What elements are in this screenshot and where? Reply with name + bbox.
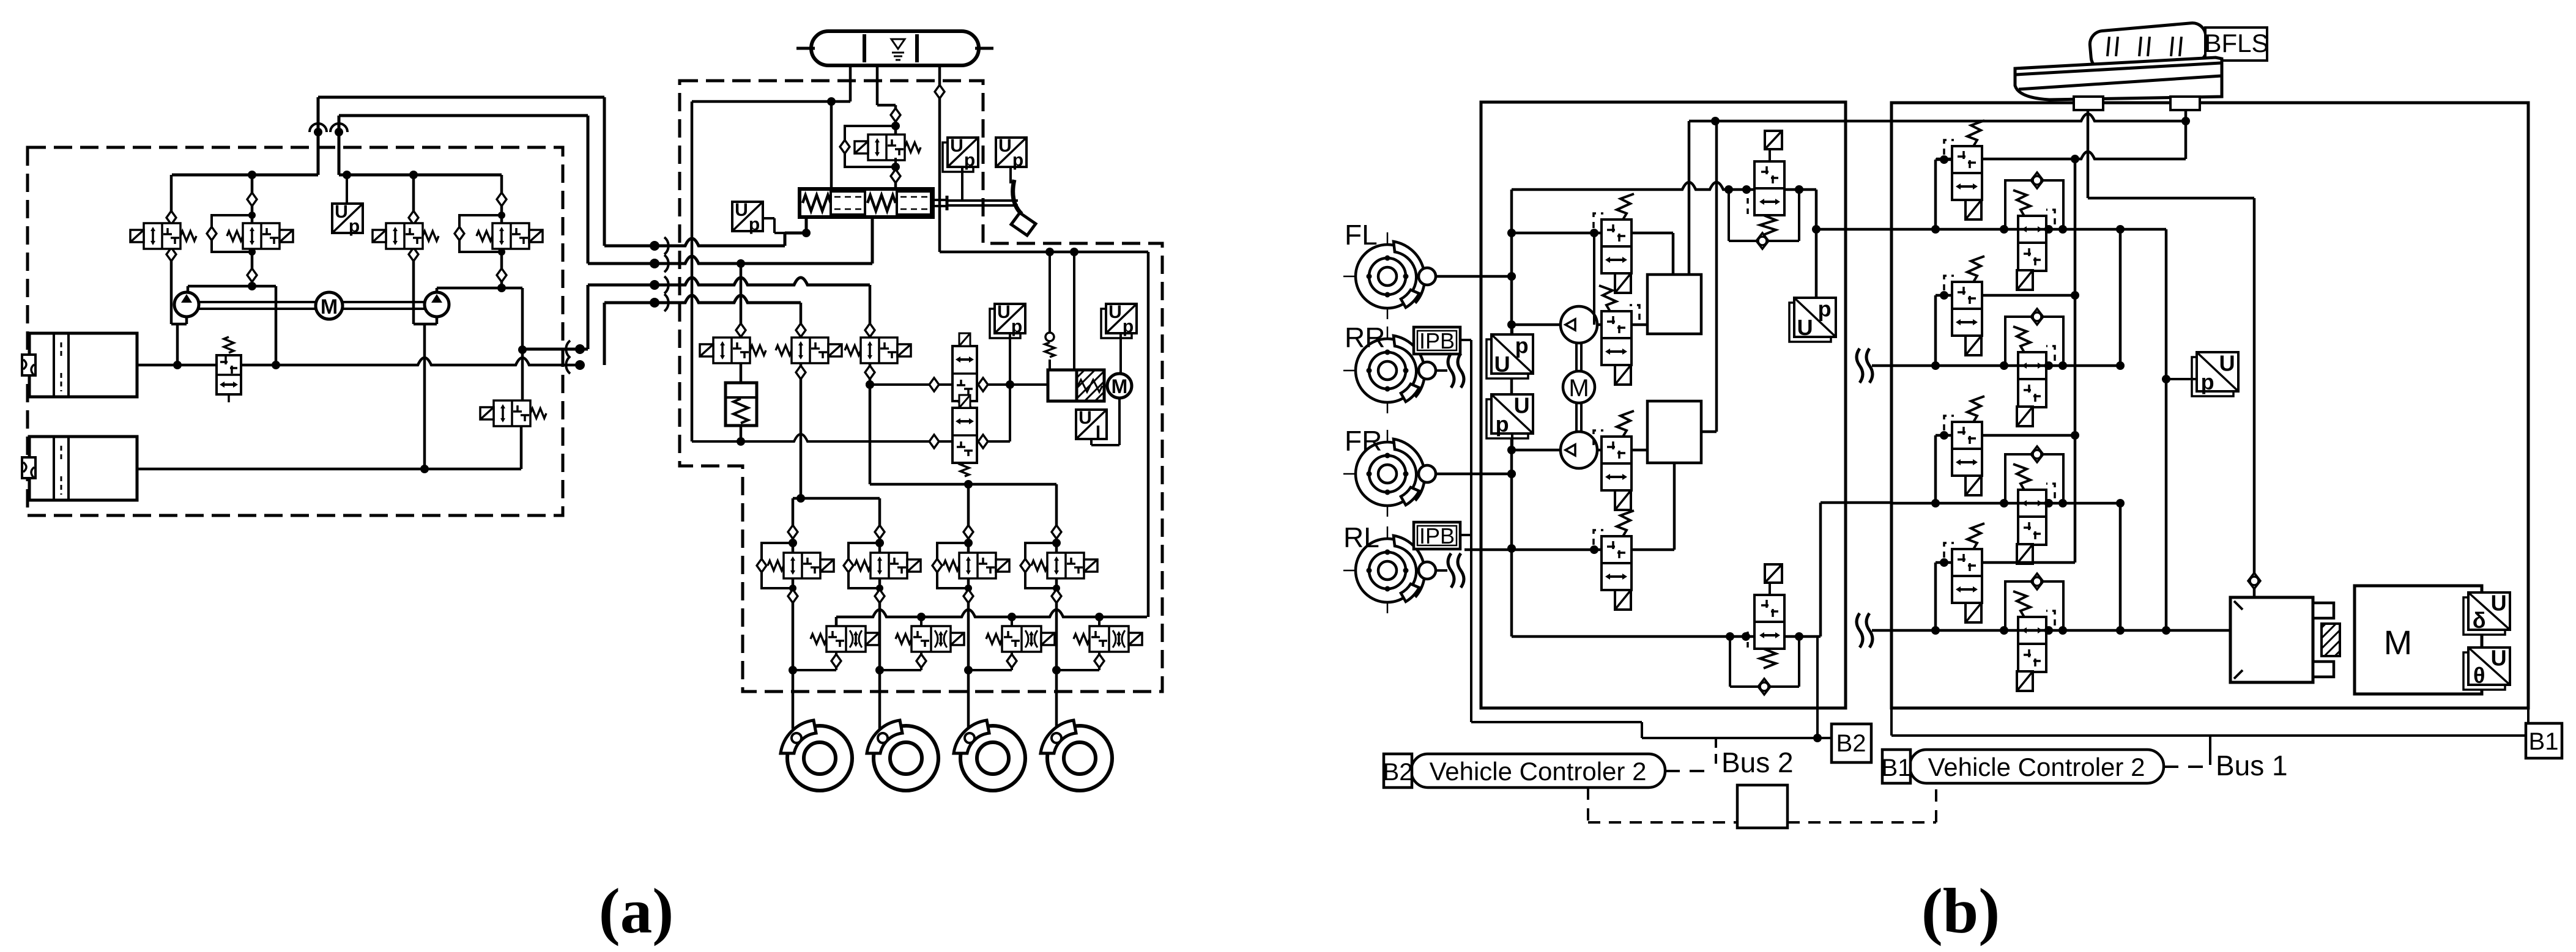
wire V1b rail bbox=[1512, 232, 1602, 235]
wire pump1 frame bbox=[188, 285, 276, 288]
pressure sensor U/p b2-1 bbox=[1487, 339, 1528, 378]
wire drain standpipe bbox=[691, 101, 694, 441]
BFLS tray bbox=[2015, 57, 2222, 100]
svg-text:U: U bbox=[997, 302, 1011, 322]
brake caliper 2 bbox=[867, 720, 902, 753]
svg-text:B1: B1 bbox=[1882, 755, 1912, 781]
svg-text:RR: RR bbox=[1345, 322, 1385, 353]
solenoid valve V4 bbox=[492, 223, 529, 249]
svg-text:Vehicle Controler 2: Vehicle Controler 2 bbox=[1430, 757, 1647, 786]
heat symbol RL bbox=[1436, 569, 1447, 572]
check valve loop inlet 1 bbox=[757, 559, 766, 572]
wire supply line 2 (a) bbox=[338, 116, 341, 175]
wire B2 signal line bbox=[1816, 637, 1819, 738]
svg-text:FL: FL bbox=[1345, 219, 1378, 251]
wire MC output manifold bbox=[940, 251, 1148, 254]
inlet valve E2 bbox=[870, 553, 907, 578]
wire pump1 top rail bbox=[172, 174, 318, 177]
svg-text:B1: B1 bbox=[2529, 728, 2559, 755]
wire valve V2 column bbox=[251, 175, 254, 194]
svg-text:U: U bbox=[2219, 351, 2235, 376]
heat symbol rail B bbox=[1857, 349, 1863, 383]
bypass loop test valve bbox=[845, 126, 896, 167]
wire to MC fill port 2 bbox=[894, 182, 897, 189]
outlet valve A1 bbox=[826, 626, 866, 652]
fluid level symbol bbox=[891, 39, 905, 49]
IPB box RR bbox=[1414, 327, 1460, 354]
svg-text:BFLS: BFLS bbox=[2204, 29, 2268, 57]
check valve above inlet 4 bbox=[1052, 525, 1061, 539]
dashed enclosure power unit (a) bbox=[28, 147, 563, 515]
coupling C4 bbox=[650, 298, 659, 308]
svg-text:U: U bbox=[335, 202, 348, 222]
BFLS reservoir body bbox=[2089, 22, 2208, 71]
svg-text:FR: FR bbox=[1345, 425, 1382, 457]
svg-text:p: p bbox=[2201, 369, 2214, 394]
bypass loop inlet 3 bbox=[937, 543, 968, 588]
wire wheel column 3 lower bbox=[967, 602, 970, 729]
svg-text:θ: θ bbox=[2473, 663, 2485, 688]
vehicle controller capsule left bbox=[1411, 754, 1665, 788]
wire b1 module 1 supply bbox=[1936, 158, 1952, 161]
svg-text:U: U bbox=[1108, 302, 1122, 322]
current sensor U/I bbox=[1076, 410, 1107, 439]
wire outlet 4 drain bbox=[1098, 652, 1101, 655]
wire wheel column 4 lower bbox=[1055, 602, 1058, 729]
check valve below V4 bbox=[497, 268, 507, 282]
check valve below V1 bbox=[166, 248, 176, 261]
wire b1 supply manifold bbox=[2074, 159, 2077, 563]
outlet valve b1-2 bbox=[2005, 317, 2063, 366]
wire motor to sensor bbox=[1118, 398, 1121, 445]
dashed link to Bus 2 bbox=[1665, 770, 1713, 772]
check valve below test valve bbox=[891, 169, 900, 183]
inlet valve b1-1 bbox=[1952, 146, 1982, 200]
wire tank2 outlet bbox=[137, 468, 425, 471]
test valve TV bbox=[868, 135, 905, 160]
check valve above V2 bbox=[247, 193, 257, 206]
piston block 1 (b2) bbox=[1647, 275, 1701, 334]
wire b1 module 4 loop bbox=[1934, 563, 1937, 630]
check valve loop inlet 4 bbox=[1020, 559, 1030, 572]
drive shaft bbox=[198, 301, 425, 303]
wire wheel column 2 upper bbox=[878, 498, 882, 526]
wire V5 to tank2 line bbox=[520, 426, 523, 469]
outlet valve A3 bbox=[1002, 626, 1041, 652]
check valve above V8 bbox=[865, 323, 875, 337]
check valve below inlet 1 bbox=[788, 589, 798, 603]
pressure sensor U/p pedal 2 bbox=[996, 138, 1026, 167]
valve V4b bbox=[1602, 536, 1631, 590]
wire B1 bus line bbox=[1890, 708, 1893, 736]
svg-text:U: U bbox=[1494, 352, 1510, 377]
check valve below V3 bbox=[409, 248, 418, 261]
svg-text:p: p bbox=[1012, 150, 1023, 171]
wire b1 suction line bbox=[1936, 152, 2186, 159]
pipe hook 1 bbox=[314, 128, 322, 136]
wire valve V1 column bbox=[170, 175, 173, 212]
svg-text:M: M bbox=[321, 295, 338, 319]
wire tie C-D bbox=[2119, 503, 2122, 630]
inlet valve E1 bbox=[784, 553, 820, 578]
wire pump2 suction bbox=[412, 320, 415, 324]
wire pump1 suction bbox=[170, 320, 173, 324]
electric motor M (a) bbox=[316, 292, 343, 319]
wire outlet 2 drain bbox=[920, 652, 922, 655]
svg-text:p: p bbox=[964, 150, 975, 171]
wheel FR bbox=[1343, 473, 1431, 475]
check valve below V8 bbox=[865, 366, 875, 379]
coupling C2 bbox=[650, 259, 659, 268]
wire rail C bbox=[1891, 502, 2120, 505]
solenoid valve V6 bbox=[713, 338, 750, 363]
wire reservoir right branch bbox=[2184, 110, 2188, 159]
pipe hook 2 bbox=[335, 128, 343, 136]
wire IPB signal to B2 bbox=[1460, 339, 1471, 341]
wire pump2 frame bbox=[437, 287, 522, 290]
brake pedal bbox=[1013, 180, 1022, 214]
check valve below inlet 2 bbox=[875, 589, 885, 603]
pressure sensor U/p MC bbox=[732, 202, 763, 231]
wire flow line F1 bbox=[870, 383, 1048, 386]
wire block1 to P1 bbox=[1597, 323, 1602, 327]
wire return line 3 (a) bbox=[587, 285, 590, 349]
svg-text:Vehicle Controler 2: Vehicle Controler 2 bbox=[1928, 753, 2145, 781]
solenoid valve V5 bbox=[494, 400, 530, 426]
inlet valve b1-3 bbox=[1952, 422, 1982, 476]
check valve in V4 loop bbox=[455, 227, 464, 240]
coupling C6 bbox=[575, 360, 585, 370]
solenoid valve V1 bbox=[144, 223, 180, 249]
dashed enclosure valve unit (a) bbox=[680, 81, 1162, 692]
check valve F2 left bbox=[929, 435, 939, 448]
valve V2b bbox=[1602, 311, 1631, 365]
check valve above inlet 3 bbox=[963, 525, 973, 539]
wire valve V4 column bbox=[500, 175, 503, 194]
wire output line y571 bbox=[522, 348, 588, 351]
relief valve R1 bbox=[217, 355, 241, 394]
wire outlet 3 drain bbox=[1011, 652, 1013, 655]
label box B2 controller bbox=[1384, 754, 1412, 788]
check valve above V3 bbox=[409, 211, 418, 224]
wire b1 module 1 loop bbox=[1934, 160, 1937, 229]
wire reservoir left outlet bbox=[849, 65, 852, 101]
brake disc 1 bbox=[787, 726, 852, 791]
solenoid valve V8 bbox=[861, 338, 897, 363]
wire flow line F2 bbox=[692, 434, 1010, 441]
bypass loop V2 bbox=[212, 215, 252, 252]
bypass loop inlet 4 bbox=[1025, 543, 1056, 588]
spring accumulator bbox=[740, 363, 743, 383]
wire V7 column bbox=[800, 303, 803, 323]
brake caliper 3 bbox=[954, 720, 989, 753]
wire reservoir third line bbox=[938, 64, 941, 252]
svg-text:B2: B2 bbox=[1836, 730, 1866, 757]
pressure generator piston box bbox=[1048, 370, 1077, 401]
inlet valve E3 bbox=[959, 553, 996, 578]
dashed link to Bus 1 bbox=[2164, 766, 2205, 768]
pressure sensor U/p b2-2 bbox=[1487, 399, 1528, 438]
wire reservoir rail bbox=[241, 358, 580, 365]
wire feeder rail 1 bbox=[800, 396, 803, 498]
outlet valve b1-4 bbox=[2005, 581, 2063, 630]
svg-text:Bus 2: Bus 2 bbox=[1721, 747, 1794, 778]
coupling C5 bbox=[575, 344, 585, 354]
solenoid valve V7 bbox=[792, 338, 828, 363]
wire wheel column 1 upper bbox=[792, 498, 795, 526]
check valve F1 left bbox=[929, 378, 939, 391]
svg-text:I: I bbox=[1096, 422, 1101, 443]
wire P1 suction bbox=[1512, 323, 1562, 327]
wire outlet rail bbox=[836, 610, 1147, 617]
svg-text:(b): (b) bbox=[1921, 875, 2000, 946]
inlet valve b1-4 bbox=[1952, 549, 1982, 603]
wire V8 column bbox=[869, 285, 872, 323]
wire interconnect line 3 bbox=[588, 278, 870, 285]
svg-text:M: M bbox=[2384, 623, 2413, 662]
wire USV1 bypass bbox=[1728, 190, 1730, 241]
wire block2 feed bbox=[1715, 121, 1718, 432]
svg-text:U: U bbox=[2491, 590, 2507, 615]
wire cross-feed to B1 rail A bbox=[1816, 228, 1891, 231]
svg-text:p: p bbox=[749, 215, 760, 235]
wire reservoir line to block1 bbox=[1689, 114, 2186, 121]
svg-text:M: M bbox=[1568, 375, 1589, 402]
wire interconnect line 1 bbox=[604, 238, 785, 246]
wheel RL bbox=[1343, 570, 1431, 572]
outlet valve b1-1 bbox=[2005, 180, 2063, 229]
check valve below inlet 4 bbox=[1052, 589, 1061, 603]
wire FL brake line bbox=[1436, 275, 1512, 278]
wire b1 module 3 loop bbox=[1934, 435, 1937, 503]
unit box B2 hydraulic bbox=[1481, 102, 1846, 708]
BFLS label bbox=[2205, 28, 2267, 61]
brake disc 4 bbox=[1047, 726, 1112, 791]
check valve cylinder feed bbox=[2248, 573, 2260, 589]
svg-text:U: U bbox=[1078, 408, 1092, 428]
check valve below V7 bbox=[796, 366, 806, 379]
wire b1 module 2 supply bbox=[1982, 294, 2075, 297]
wire sensor1 stem bbox=[1009, 333, 1011, 385]
wire reservoir left branch bbox=[2087, 110, 2090, 198]
coupling hatch bbox=[2322, 624, 2340, 656]
wire V1b to block1 bbox=[1631, 232, 1673, 235]
svg-text:Bus 1: Bus 1 bbox=[2216, 750, 2288, 781]
svg-text:IPB: IPB bbox=[1419, 523, 1455, 548]
wire wheel column 3 upper bbox=[967, 484, 970, 526]
unit box B1 hydraulic bbox=[1891, 103, 2528, 708]
svg-text:U: U bbox=[998, 136, 1012, 156]
svg-text:p: p bbox=[1123, 317, 1134, 337]
brake disc 2 bbox=[874, 726, 938, 791]
wheel RR bbox=[1343, 370, 1431, 372]
svg-text:p: p bbox=[1818, 297, 1832, 322]
solenoid valve USV2 bbox=[1765, 564, 1782, 583]
pressure sensor U/p b2-3 bbox=[1789, 303, 1831, 342]
pressure sensor U/p pedal 1 bbox=[943, 142, 973, 172]
check valve test loop bbox=[840, 140, 850, 153]
solenoid valve V2 bbox=[243, 223, 280, 249]
push rod bbox=[933, 199, 947, 201]
wire valve V3 column bbox=[412, 175, 415, 212]
wire USV1 out bbox=[1784, 188, 1816, 191]
bypass loop inlet 2 bbox=[848, 543, 880, 588]
check valve above V1 bbox=[166, 211, 176, 224]
wire b2 suction manifold bbox=[1510, 190, 1513, 637]
gateway box bbox=[1737, 785, 1787, 828]
BFLS outlet stubs bbox=[2074, 97, 2103, 110]
reservoir capsule (a) bbox=[811, 31, 979, 65]
fluid tank 2 (a) bbox=[29, 437, 137, 500]
bypass loop V4 bbox=[459, 215, 502, 252]
dashed gateway link bbox=[1587, 788, 1589, 822]
wire b1 module 2 loop bbox=[1934, 295, 1937, 366]
wire V6 column bbox=[740, 264, 743, 323]
svg-text:p: p bbox=[1496, 411, 1509, 437]
wire USV2 bypass bbox=[1729, 637, 1731, 687]
wire reservoir right outlet bbox=[876, 65, 879, 105]
check valve above V4 bbox=[497, 193, 507, 206]
svg-text:IPB: IPB bbox=[1419, 328, 1455, 353]
check valve reservoir bbox=[891, 108, 900, 122]
wire supply line 1 (a) bbox=[317, 97, 320, 175]
valve V3b bbox=[1602, 437, 1631, 490]
wire wheel column 1 lower bbox=[792, 602, 795, 729]
flow valve F2 bbox=[952, 408, 977, 463]
wire tank1 outlet bbox=[137, 364, 217, 367]
svg-text:p: p bbox=[1011, 317, 1022, 337]
check valve below inlet 3 bbox=[963, 589, 973, 603]
piston block 2 (b2) bbox=[1647, 401, 1701, 463]
heat symbol rail D bbox=[1857, 613, 1863, 648]
outlet valve A4 bbox=[1089, 626, 1129, 652]
check valve F2 right bbox=[978, 435, 988, 448]
vehicle controller capsule right bbox=[1910, 750, 2164, 783]
outlet valve A2 bbox=[911, 626, 951, 652]
wire interconnect line 2 bbox=[588, 256, 872, 264]
wire RL line to V4b bbox=[1464, 548, 1602, 552]
pressure sensor U/p central 2 bbox=[1101, 309, 1132, 338]
MC piston 2 bbox=[897, 191, 931, 215]
brake caliper 4 bbox=[1041, 720, 1076, 753]
check valve above inlet 1 bbox=[788, 525, 798, 539]
fluid tank 1 (a) bbox=[29, 333, 137, 397]
check valve third line bbox=[935, 85, 945, 98]
svg-text:p: p bbox=[1515, 333, 1529, 358]
heat symbol RR bbox=[1436, 369, 1447, 372]
inlet valve E4 bbox=[1047, 553, 1084, 578]
svg-text:(a): (a) bbox=[599, 875, 674, 946]
svg-text:δ: δ bbox=[2473, 608, 2486, 633]
node box B2 bbox=[1832, 724, 1871, 762]
svg-text:U: U bbox=[735, 200, 748, 220]
check valve loop inlet 3 bbox=[932, 559, 942, 572]
IPB box RL bbox=[1414, 522, 1460, 549]
motor box M (b1) bbox=[2355, 586, 2482, 694]
wire feeder rail 2 bbox=[869, 396, 872, 484]
solenoid valve V3 bbox=[386, 223, 423, 249]
check valve above V7 bbox=[796, 323, 806, 337]
svg-text:p: p bbox=[349, 216, 360, 237]
svg-text:RL: RL bbox=[1343, 522, 1379, 553]
wire second pilot bbox=[1073, 252, 1075, 370]
wire tie A-B bbox=[2119, 229, 2122, 366]
wire pump2 top rail bbox=[339, 174, 502, 177]
node box B1 bbox=[2527, 708, 2530, 723]
wire to test valve bbox=[894, 122, 897, 138]
solenoid valve USV1 bbox=[1765, 131, 1782, 149]
brake disc 3 bbox=[960, 726, 1025, 791]
master cylinder bbox=[800, 189, 933, 217]
pressure sensor p/U b1 bbox=[2192, 357, 2233, 396]
wire P2 suction bbox=[1512, 449, 1562, 452]
pump P2 (b2) bbox=[1575, 403, 1578, 432]
hydraulic pump P2 bbox=[425, 292, 449, 317]
wire USV2 out to rail C bbox=[1785, 635, 1821, 638]
brake caliper 1 bbox=[781, 720, 816, 753]
check valve F1 right bbox=[978, 378, 988, 391]
hydraulic pump P1 bbox=[174, 292, 199, 317]
pressure sensor U/p power unit bbox=[346, 175, 348, 204]
wire rail D bbox=[1872, 629, 2230, 632]
pressure generator spindle bbox=[1077, 370, 1104, 401]
wire b2 bottom rail bbox=[1512, 635, 1755, 638]
inlet valve b1-2 bbox=[1952, 282, 1982, 336]
valve V1b bbox=[1602, 220, 1631, 273]
check valve below V2 bbox=[247, 268, 257, 282]
label box B1 controller bbox=[1882, 750, 1910, 783]
flow valve F1 bbox=[952, 346, 977, 401]
svg-text:B2: B2 bbox=[1383, 759, 1413, 786]
svg-text:U: U bbox=[2491, 645, 2507, 670]
bypass loop inlet 1 bbox=[762, 543, 793, 588]
tank 1 breather bbox=[22, 355, 35, 375]
wire sensor2 stem bbox=[1119, 333, 1122, 372]
simulator cylinder bbox=[2230, 597, 2313, 682]
wire wheel column 2 lower bbox=[878, 602, 882, 729]
wire return line 4 (a) bbox=[603, 303, 606, 365]
pressure sensor U/p central 1 bbox=[990, 309, 1020, 338]
svg-text:U: U bbox=[950, 136, 963, 156]
svg-text:U: U bbox=[1514, 393, 1530, 418]
wire V4b to block2 bbox=[1631, 548, 1674, 552]
check valve above V6 bbox=[736, 323, 746, 337]
outlet valve b1-3 bbox=[2005, 454, 2063, 503]
wire b1 module 4 supply bbox=[1982, 561, 2075, 564]
MC piston 1 bbox=[831, 191, 865, 215]
coupling C1 bbox=[650, 241, 659, 251]
svg-text:U: U bbox=[1797, 315, 1813, 340]
wire rail A bbox=[1891, 228, 2166, 231]
wire reservoir feed header bbox=[692, 100, 850, 103]
wire FR brake line bbox=[1436, 473, 1512, 476]
coupling C3 bbox=[650, 280, 659, 290]
wheel FL bbox=[1343, 276, 1431, 278]
pump P1 (b2) bbox=[1561, 306, 1597, 343]
wire outlet 1 drain bbox=[835, 652, 837, 655]
check valve loop inlet 2 bbox=[844, 559, 853, 572]
wire relief pilot bbox=[1049, 252, 1051, 332]
svg-text:M: M bbox=[1112, 375, 1128, 397]
wire interconnect line 4 bbox=[604, 295, 801, 303]
angle sensor theta bbox=[2463, 652, 2505, 690]
tank 2 breather bbox=[22, 457, 35, 478]
motor M (b2) bbox=[1575, 343, 1578, 371]
wire b1 module 3 supply bbox=[1982, 434, 2075, 437]
check valve above inlet 2 bbox=[875, 525, 885, 539]
wire wheel column 4 upper bbox=[1055, 484, 1058, 526]
wire rail B bbox=[1872, 364, 2120, 367]
